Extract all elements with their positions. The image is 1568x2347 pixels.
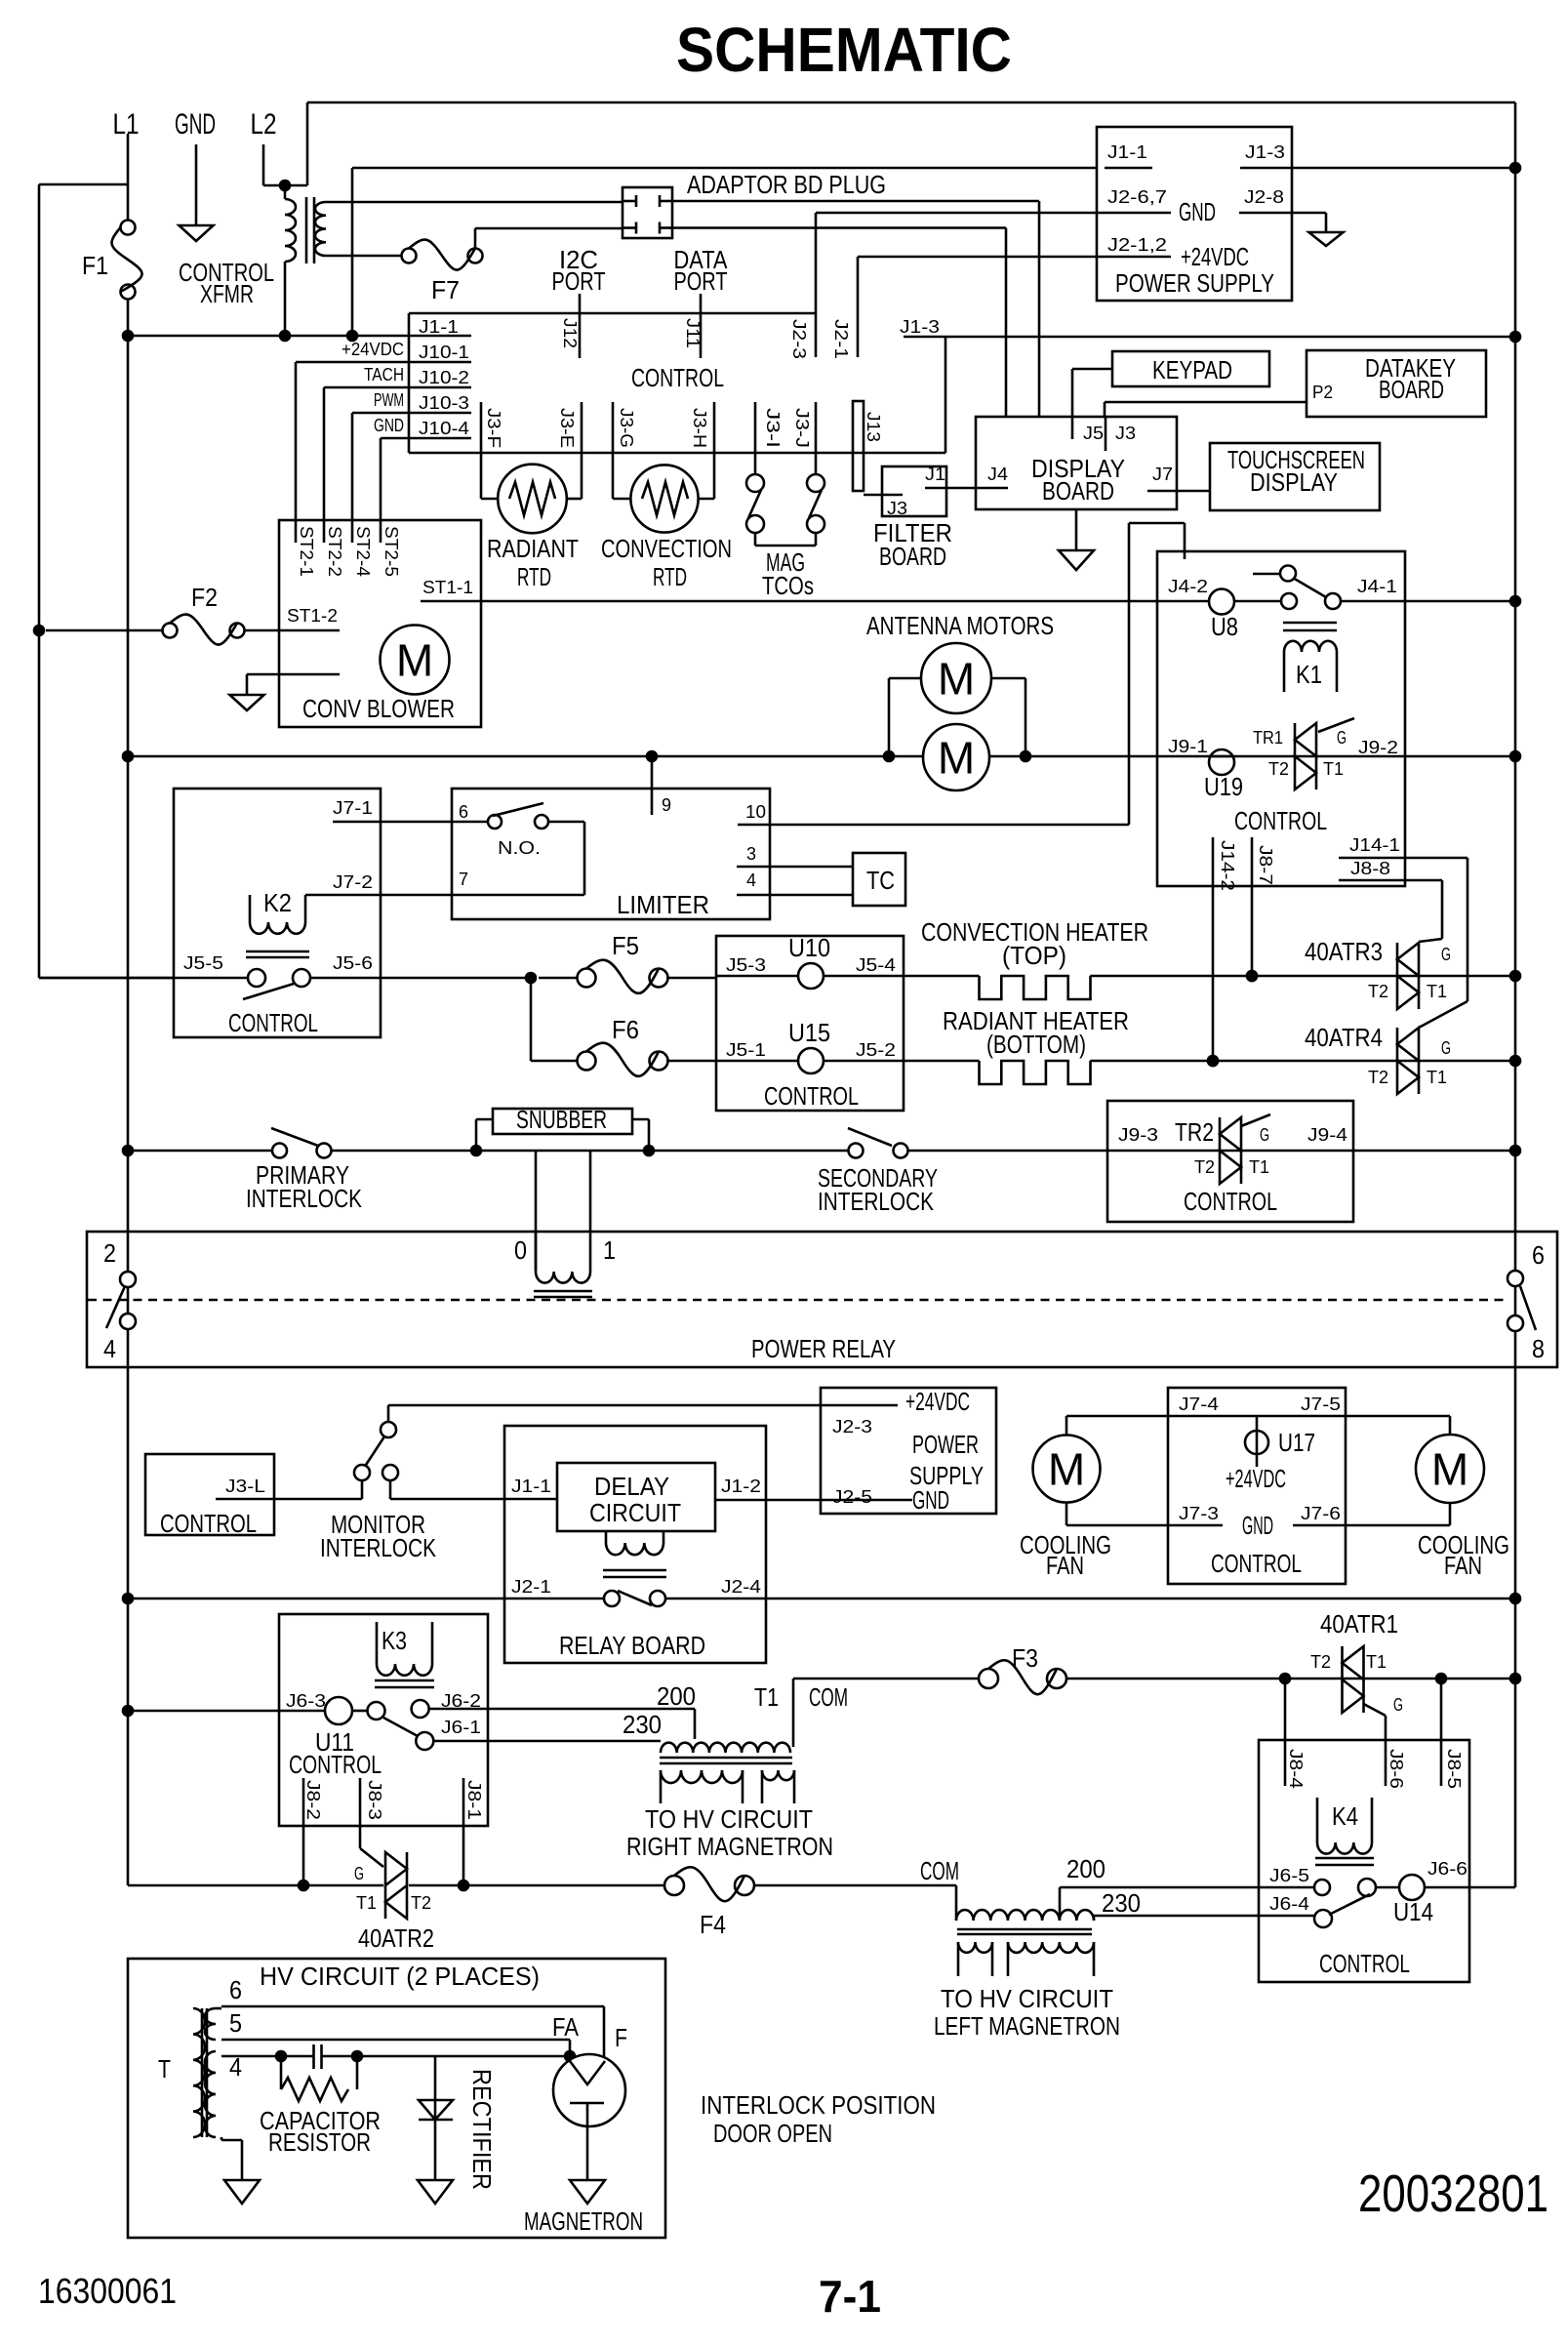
svg-text:2: 2 [103, 1238, 116, 1268]
svg-text:J2-3: J2-3 [789, 319, 809, 359]
svg-text:J7-2: J7-2 [333, 872, 373, 892]
svg-text:F1: F1 [82, 251, 108, 280]
svg-text:J2-5: J2-5 [832, 1487, 872, 1507]
svg-text:J2-1: J2-1 [511, 1577, 551, 1597]
svg-text:9: 9 [662, 795, 671, 815]
svg-text:200: 200 [1066, 1854, 1106, 1883]
svg-text:F3: F3 [1012, 1643, 1038, 1673]
svg-text:J5-5: J5-5 [183, 953, 223, 973]
svg-text:(BOTTOM): (BOTTOM) [986, 1030, 1086, 1059]
svg-text:J8-2: J8-2 [303, 1780, 323, 1820]
svg-text:CONV BLOWER: CONV BLOWER [302, 694, 455, 723]
svg-text:CONTROL: CONTROL [631, 363, 724, 392]
svg-text:U10: U10 [788, 933, 830, 962]
svg-text:MAGNETRON: MAGNETRON [524, 2206, 643, 2236]
svg-text:J7-6: J7-6 [1301, 1504, 1341, 1523]
svg-text:INTERLOCK: INTERLOCK [246, 1184, 363, 1213]
svg-text:J2-4: J2-4 [721, 1577, 761, 1597]
svg-text:J6-6: J6-6 [1427, 1859, 1467, 1879]
svg-text:F: F [615, 2023, 627, 2052]
svg-text:RIGHT MAGNETRON: RIGHT MAGNETRON [626, 1832, 833, 1861]
svg-text:T1: T1 [1366, 1652, 1387, 1672]
svg-text:J5-1: J5-1 [726, 1040, 766, 1060]
svg-text:N.O.: N.O. [498, 838, 541, 858]
svg-text:G: G [1441, 945, 1451, 964]
svg-text:M: M [396, 635, 433, 686]
svg-text:M: M [938, 733, 975, 784]
svg-text:J8-4: J8-4 [1286, 1749, 1306, 1789]
svg-text:J5-6: J5-6 [333, 953, 373, 973]
svg-text:J7-5: J7-5 [1301, 1395, 1341, 1414]
svg-text:M: M [938, 654, 975, 705]
svg-text:T2: T2 [1310, 1652, 1331, 1672]
svg-text:J2-1,2: J2-1,2 [1107, 235, 1167, 255]
svg-text:F2: F2 [191, 583, 218, 612]
svg-text:J4: J4 [987, 465, 1008, 484]
svg-text:J8-7: J8-7 [1256, 845, 1275, 885]
svg-text:POWER SUPPLY: POWER SUPPLY [1115, 268, 1274, 298]
svg-text:TO HV CIRCUIT: TO HV CIRCUIT [941, 1984, 1113, 2013]
svg-text:J8-5: J8-5 [1444, 1749, 1464, 1789]
svg-text:J1-1: J1-1 [511, 1477, 551, 1496]
svg-text:J9-1: J9-1 [1168, 737, 1208, 756]
svg-text:CONTROL: CONTROL [1211, 1549, 1302, 1578]
svg-text:T1: T1 [1249, 1157, 1269, 1177]
svg-text:J12: J12 [560, 318, 580, 348]
svg-text:+24VDC: +24VDC [342, 340, 404, 359]
svg-text:6: 6 [229, 1975, 242, 2004]
svg-text:8: 8 [1532, 1334, 1545, 1363]
svg-text:J3-F: J3-F [484, 408, 503, 448]
svg-text:CONTROL: CONTROL [1184, 1187, 1277, 1216]
svg-text:FA: FA [552, 2012, 580, 2042]
svg-text:40ATR4: 40ATR4 [1305, 1023, 1383, 1052]
svg-text:J14-1: J14-1 [1349, 835, 1400, 855]
svg-text:J7-3: J7-3 [1179, 1504, 1219, 1523]
svg-text:230: 230 [623, 1710, 662, 1739]
svg-text:BOARD: BOARD [1042, 476, 1114, 506]
svg-text:T1: T1 [356, 1893, 377, 1913]
svg-text:J3-G: J3-G [617, 408, 636, 448]
svg-text:J1-1: J1-1 [1107, 142, 1147, 162]
svg-text:J10-4: J10-4 [419, 419, 469, 438]
svg-text:LEFT MAGNETRON: LEFT MAGNETRON [934, 2011, 1120, 2041]
svg-text:F7: F7 [431, 275, 460, 304]
svg-text:G: G [1337, 728, 1347, 748]
svg-text:TCOs: TCOs [762, 571, 814, 600]
svg-text:T2: T2 [1194, 1157, 1215, 1177]
svg-text:COM: COM [920, 1856, 959, 1885]
svg-text:CONVECTION: CONVECTION [601, 534, 732, 563]
svg-text:RTD: RTD [517, 562, 551, 591]
svg-text:ST1-1: ST1-1 [422, 578, 473, 597]
svg-text:J3-H: J3-H [690, 408, 709, 448]
svg-text:M: M [1048, 1444, 1085, 1495]
svg-text:J7-1: J7-1 [333, 798, 373, 818]
svg-text:20032801: 20032801 [1358, 2165, 1548, 2223]
svg-text:7: 7 [459, 870, 468, 889]
svg-text:INTERLOCK POSITION: INTERLOCK POSITION [701, 2090, 936, 2120]
svg-text:+24VDC: +24VDC [1226, 1464, 1286, 1493]
svg-text:LIMITER: LIMITER [617, 890, 709, 919]
svg-text:T1: T1 [1323, 759, 1344, 779]
svg-text:J9-2: J9-2 [1358, 738, 1398, 757]
svg-text:J14-2: J14-2 [1218, 840, 1237, 891]
svg-text:G: G [354, 1864, 364, 1883]
svg-text:K2: K2 [263, 888, 292, 917]
svg-text:ST2-5: ST2-5 [382, 526, 401, 577]
svg-text:G: G [1441, 1038, 1451, 1058]
svg-text:SNUBBER: SNUBBER [516, 1105, 607, 1134]
svg-text:SCHEMATIC: SCHEMATIC [676, 15, 1012, 85]
svg-text:J6-5: J6-5 [1269, 1866, 1309, 1885]
svg-text:DISPLAY: DISPLAY [1250, 467, 1338, 497]
svg-text:(TOP): (TOP) [1002, 941, 1066, 970]
svg-text:PWM: PWM [374, 390, 404, 410]
svg-text:BOARD: BOARD [1379, 375, 1444, 404]
svg-text:+24VDC: +24VDC [905, 1387, 970, 1416]
svg-text:ST2-4: ST2-4 [353, 526, 373, 577]
svg-text:TR2: TR2 [1175, 1117, 1214, 1147]
svg-text:F5: F5 [612, 931, 639, 960]
svg-text:J5-3: J5-3 [726, 955, 766, 975]
svg-text:P2: P2 [1312, 383, 1333, 402]
svg-text:RELAY BOARD: RELAY BOARD [559, 1631, 705, 1660]
svg-text:T1: T1 [754, 1682, 779, 1712]
svg-text:J5: J5 [1083, 424, 1104, 443]
svg-text:J9-3: J9-3 [1118, 1125, 1158, 1145]
svg-text:J1-3: J1-3 [1245, 142, 1285, 162]
svg-text:GND: GND [1242, 1511, 1273, 1540]
svg-text:40ATR1: 40ATR1 [1320, 1609, 1398, 1639]
svg-text:INTERLOCK: INTERLOCK [818, 1187, 935, 1216]
svg-text:F6: F6 [612, 1015, 639, 1044]
svg-text:HV CIRCUIT (2 PLACES): HV CIRCUIT (2 PLACES) [260, 1962, 540, 1991]
svg-text:40ATR3: 40ATR3 [1305, 937, 1383, 966]
svg-text:DELAY: DELAY [594, 1472, 669, 1501]
svg-text:J7: J7 [1152, 465, 1173, 484]
svg-text:U15: U15 [788, 1018, 830, 1047]
svg-text:POWER: POWER [912, 1430, 979, 1459]
svg-text:J1-3: J1-3 [900, 317, 940, 337]
svg-text:RADIANT: RADIANT [487, 534, 579, 563]
svg-text:T1: T1 [1427, 982, 1447, 1001]
svg-text:L1: L1 [113, 108, 140, 141]
svg-text:J8-6: J8-6 [1387, 1749, 1406, 1789]
svg-text:CONTROL: CONTROL [764, 1081, 859, 1111]
svg-text:5: 5 [229, 2008, 242, 2038]
svg-text:L2: L2 [251, 108, 277, 141]
svg-text:K4: K4 [1332, 1801, 1358, 1831]
svg-text:POWER RELAY: POWER RELAY [751, 1334, 896, 1363]
svg-text:ANTENNA MOTORS: ANTENNA MOTORS [866, 611, 1054, 640]
svg-text:J8-1: J8-1 [464, 1780, 484, 1820]
svg-text:4: 4 [746, 870, 756, 890]
svg-text:T2: T2 [1268, 759, 1289, 779]
svg-text:U14: U14 [1393, 1897, 1433, 1926]
svg-text:200: 200 [657, 1681, 696, 1711]
svg-text:CONTROL: CONTROL [160, 1509, 257, 1538]
svg-text:TACH: TACH [364, 365, 404, 384]
svg-text:J10-1: J10-1 [419, 343, 469, 362]
svg-text:J1-1: J1-1 [419, 317, 459, 337]
svg-text:J2-6,7: J2-6,7 [1107, 187, 1167, 207]
svg-text:U17: U17 [1278, 1428, 1315, 1457]
svg-text:FAN: FAN [1444, 1551, 1482, 1580]
svg-text:PORT: PORT [674, 266, 728, 296]
svg-text:J10-2: J10-2 [419, 368, 469, 387]
svg-text:J2-3: J2-3 [832, 1417, 872, 1437]
svg-text:U8: U8 [1211, 612, 1238, 641]
svg-text:GND: GND [175, 108, 216, 141]
svg-text:FAN: FAN [1046, 1551, 1084, 1580]
svg-text:RECTIFIER: RECTIFIER [467, 2069, 497, 2190]
svg-text:J3: J3 [1115, 424, 1136, 443]
svg-text:GND: GND [912, 1485, 949, 1515]
svg-text:T1: T1 [1427, 1068, 1447, 1087]
svg-text:4: 4 [103, 1334, 116, 1363]
svg-text:J1-2: J1-2 [721, 1477, 761, 1496]
svg-text:K3: K3 [382, 1626, 407, 1655]
svg-text:J9-4: J9-4 [1307, 1125, 1347, 1145]
svg-text:CONTROL: CONTROL [1234, 806, 1327, 835]
svg-text:CONTROL: CONTROL [289, 1750, 382, 1779]
svg-text:T2: T2 [1368, 982, 1388, 1001]
svg-text:J11: J11 [683, 318, 703, 348]
svg-text:J3-I: J3-I [763, 408, 783, 448]
svg-text:K1: K1 [1296, 660, 1322, 689]
svg-text:DOOR OPEN: DOOR OPEN [713, 2119, 832, 2148]
svg-text:KEYPAD: KEYPAD [1152, 355, 1232, 384]
svg-text:ADAPTOR BD PLUG: ADAPTOR BD PLUG [687, 170, 886, 199]
svg-text:XFMR: XFMR [200, 279, 254, 308]
svg-text:0: 0 [514, 1235, 527, 1265]
svg-text:G: G [1393, 1695, 1403, 1715]
svg-text:TR1: TR1 [1253, 728, 1283, 748]
svg-text:J8-3: J8-3 [365, 1780, 384, 1820]
svg-text:1: 1 [603, 1235, 616, 1265]
svg-text:J6-4: J6-4 [1269, 1894, 1309, 1914]
svg-text:J4-1: J4-1 [1357, 577, 1397, 596]
svg-text:J6-1: J6-1 [441, 1718, 481, 1737]
svg-text:J3-L: J3-L [225, 1477, 265, 1496]
svg-text:J5-2: J5-2 [856, 1040, 896, 1060]
svg-text:3: 3 [746, 844, 756, 864]
svg-text:J3-E: J3-E [557, 408, 577, 448]
svg-text:J2-8: J2-8 [1244, 187, 1284, 207]
svg-text:230: 230 [1102, 1888, 1141, 1918]
svg-text:ST2-1: ST2-1 [297, 526, 316, 577]
svg-text:J6-3: J6-3 [286, 1691, 326, 1711]
svg-text:RESISTOR: RESISTOR [268, 2127, 371, 2157]
svg-text:7-1: 7-1 [819, 2271, 881, 2322]
svg-text:J5-4: J5-4 [856, 955, 896, 975]
svg-text:U19: U19 [1204, 772, 1243, 801]
svg-text:G: G [1260, 1125, 1269, 1145]
svg-text:J7-4: J7-4 [1179, 1395, 1219, 1414]
svg-text:J10-3: J10-3 [419, 393, 469, 413]
svg-text:RTD: RTD [653, 562, 687, 591]
svg-text:T: T [158, 2054, 171, 2084]
svg-text:GND: GND [374, 416, 404, 435]
svg-text:+24VDC: +24VDC [1181, 242, 1249, 271]
svg-text:ST1-2: ST1-2 [287, 606, 338, 626]
svg-text:J8-8: J8-8 [1350, 859, 1390, 878]
svg-text:40ATR2: 40ATR2 [358, 1923, 434, 1953]
svg-text:BOARD: BOARD [879, 542, 946, 571]
svg-text:ST2-2: ST2-2 [325, 526, 344, 577]
svg-text:CONTROL: CONTROL [1319, 1949, 1410, 1978]
svg-text:T2: T2 [411, 1893, 431, 1913]
svg-text:PORT: PORT [552, 266, 606, 296]
svg-text:10: 10 [745, 802, 766, 822]
svg-text:J13: J13 [864, 412, 883, 442]
svg-text:F4: F4 [700, 1910, 726, 1939]
svg-text:6: 6 [1532, 1240, 1545, 1270]
svg-text:GND: GND [1179, 197, 1216, 226]
svg-text:16300061: 16300061 [38, 2271, 177, 2311]
svg-text:INTERLOCK: INTERLOCK [320, 1533, 437, 1562]
svg-text:J2-1: J2-1 [831, 319, 851, 359]
svg-text:TC: TC [866, 866, 895, 895]
svg-text:M: M [1431, 1444, 1468, 1495]
svg-text:CIRCUIT: CIRCUIT [589, 1498, 681, 1527]
svg-text:CONTROL: CONTROL [228, 1008, 318, 1037]
svg-text:COM: COM [809, 1682, 848, 1712]
svg-text:6: 6 [459, 802, 468, 822]
svg-text:J4-2: J4-2 [1168, 577, 1208, 596]
svg-text:T2: T2 [1368, 1068, 1388, 1087]
svg-text:TO HV CIRCUIT: TO HV CIRCUIT [645, 1804, 813, 1834]
svg-text:J3-J: J3-J [792, 408, 812, 448]
